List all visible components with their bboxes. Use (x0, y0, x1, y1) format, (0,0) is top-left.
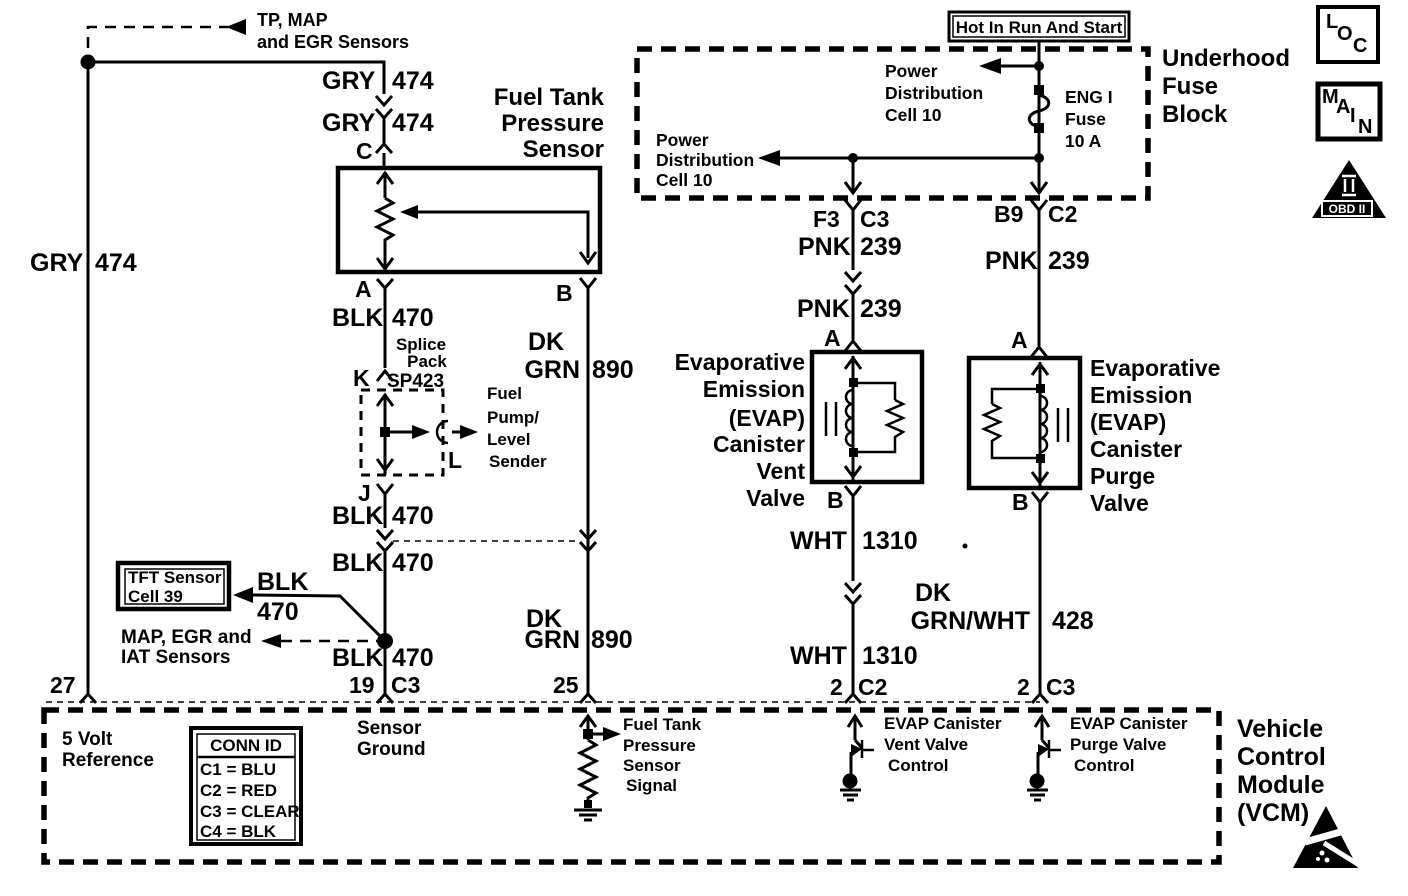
svg-text:Vehicle: Vehicle (1237, 715, 1323, 743)
svg-text:C2: C2 (1048, 201, 1077, 227)
svg-text:BLK: BLK (332, 549, 383, 577)
svg-text:PNK: PNK (798, 233, 851, 261)
svg-text:Level: Level (487, 430, 530, 449)
svg-text:Block: Block (1162, 101, 1228, 128)
svg-text:A: A (824, 325, 841, 351)
svg-text:470: 470 (257, 598, 299, 626)
svg-text:B9: B9 (994, 201, 1023, 227)
svg-text:Pressure: Pressure (501, 110, 604, 137)
svg-text:Distribution: Distribution (656, 150, 754, 170)
svg-text:Emission: Emission (1090, 382, 1192, 408)
svg-text:470: 470 (392, 502, 434, 530)
svg-text:OBD II: OBD II (1329, 202, 1366, 216)
svg-text:Pump/: Pump/ (487, 408, 539, 427)
svg-text:Underhood: Underhood (1162, 45, 1290, 72)
svg-text:C3: C3 (860, 206, 889, 232)
svg-text:ENG I: ENG I (1065, 87, 1113, 107)
svg-text:C2 = RED: C2 = RED (200, 781, 277, 800)
svg-text:I: I (1350, 105, 1356, 127)
svg-text:F3: F3 (813, 206, 840, 232)
svg-text:Valve: Valve (746, 485, 805, 511)
svg-text:Cell 10: Cell 10 (885, 105, 942, 125)
svg-text:Fuse: Fuse (1162, 73, 1218, 100)
svg-text:Cell 39: Cell 39 (128, 587, 183, 606)
svg-text:Control: Control (1074, 756, 1134, 775)
svg-text:Vent: Vent (756, 458, 805, 484)
svg-text:Control: Control (888, 756, 948, 775)
svg-text:Module: Module (1237, 771, 1325, 799)
svg-text:BLK: BLK (332, 304, 383, 332)
svg-text:Fuse: Fuse (1065, 109, 1106, 129)
svg-text:Evaporative: Evaporative (675, 349, 805, 375)
svg-text:TP, MAP: TP, MAP (257, 10, 328, 30)
svg-text:Sender: Sender (489, 452, 547, 471)
svg-text:5 Volt: 5 Volt (62, 729, 113, 750)
svg-text:Signal: Signal (626, 776, 677, 795)
svg-text:DK: DK (528, 328, 564, 356)
svg-text:25: 25 (553, 672, 579, 698)
svg-text:10 A: 10 A (1065, 131, 1102, 151)
svg-text:1310: 1310 (862, 527, 918, 555)
svg-text:MAP, EGR and: MAP, EGR and (121, 627, 252, 648)
svg-text:and EGR Sensors: and EGR Sensors (257, 32, 409, 52)
svg-text:L: L (448, 447, 462, 473)
svg-text:K: K (353, 365, 370, 391)
svg-text:WHT: WHT (790, 642, 847, 670)
svg-text:B: B (556, 280, 573, 306)
svg-text:428: 428 (1052, 607, 1094, 635)
svg-text:Pressure: Pressure (623, 736, 696, 755)
svg-text:Purge: Purge (1090, 463, 1155, 489)
svg-text:GRY: GRY (322, 109, 376, 137)
svg-text:(EVAP): (EVAP) (729, 405, 805, 431)
svg-text:WHT: WHT (790, 527, 847, 555)
svg-text:A: A (355, 276, 372, 302)
svg-text:Sensor: Sensor (523, 136, 604, 163)
svg-text:Fuel Tank: Fuel Tank (623, 715, 702, 734)
svg-text:C1 = BLU: C1 = BLU (200, 760, 276, 779)
svg-text:GRY: GRY (30, 249, 84, 277)
svg-text:CONN ID: CONN ID (210, 736, 282, 755)
svg-text:C: C (356, 138, 373, 164)
svg-text:890: 890 (592, 356, 634, 384)
svg-text:474: 474 (95, 249, 137, 277)
svg-text:A: A (1336, 96, 1350, 118)
svg-text:B: B (827, 487, 844, 513)
svg-text:A: A (1011, 327, 1028, 353)
svg-text:Sensor: Sensor (357, 718, 422, 739)
svg-text:Emission: Emission (703, 376, 805, 402)
svg-text:474: 474 (392, 109, 434, 137)
svg-text:(VCM): (VCM) (1237, 799, 1309, 827)
svg-text:BLK: BLK (332, 502, 383, 530)
svg-text:239: 239 (860, 233, 902, 261)
svg-text:Power: Power (656, 130, 709, 150)
svg-text:Ground: Ground (357, 739, 426, 760)
svg-text:(EVAP): (EVAP) (1090, 409, 1166, 435)
svg-text:PNK: PNK (985, 247, 1038, 275)
svg-text:BLK: BLK (257, 568, 308, 596)
svg-text:EVAP Canister: EVAP Canister (884, 714, 1002, 733)
svg-text:GRY: GRY (322, 67, 376, 95)
svg-text:GRN: GRN (524, 626, 580, 654)
svg-text:Purge Valve: Purge Valve (1070, 735, 1166, 754)
svg-text:TFT Sensor: TFT Sensor (128, 568, 222, 587)
svg-text:Fuel: Fuel (487, 384, 522, 403)
svg-text:C: C (1353, 35, 1367, 57)
svg-text:Vent Valve: Vent Valve (884, 735, 968, 754)
svg-text:IAT Sensors: IAT Sensors (121, 647, 230, 668)
svg-text:Evaporative: Evaporative (1090, 355, 1220, 381)
svg-text:239: 239 (860, 295, 902, 323)
svg-text:Reference: Reference (62, 750, 154, 771)
svg-text:890: 890 (591, 626, 633, 654)
svg-text:Canister: Canister (713, 431, 805, 457)
svg-text:470: 470 (392, 644, 434, 672)
svg-text:GRN/WHT: GRN/WHT (911, 607, 1030, 635)
svg-text:Cell 10: Cell 10 (656, 170, 713, 190)
svg-text:GRN: GRN (524, 356, 580, 384)
svg-text:470: 470 (392, 304, 434, 332)
svg-text:1310: 1310 (862, 642, 918, 670)
svg-text:EVAP Canister: EVAP Canister (1070, 714, 1188, 733)
svg-text:Valve: Valve (1090, 490, 1149, 516)
svg-text:Canister: Canister (1090, 436, 1182, 462)
svg-text:PNK: PNK (797, 295, 850, 323)
svg-text:N: N (1358, 116, 1372, 138)
svg-text:Fuel Tank: Fuel Tank (494, 84, 605, 111)
svg-text:C4 = BLK: C4 = BLK (200, 822, 277, 841)
svg-text:Control: Control (1237, 743, 1326, 771)
svg-text:27: 27 (50, 672, 76, 698)
svg-text:C2: C2 (858, 674, 887, 700)
svg-text:C3: C3 (391, 672, 420, 698)
svg-text:239: 239 (1048, 247, 1090, 275)
svg-text:C3 = CLEAR: C3 = CLEAR (200, 802, 300, 821)
svg-text:Sensor: Sensor (623, 756, 681, 775)
svg-text:2: 2 (830, 674, 843, 700)
svg-text:Distribution: Distribution (885, 83, 983, 103)
svg-text:Pack: Pack (407, 352, 447, 371)
svg-text:C3: C3 (1046, 674, 1075, 700)
svg-text:19: 19 (349, 672, 375, 698)
svg-text:B: B (1012, 489, 1029, 515)
svg-text:2: 2 (1017, 674, 1030, 700)
svg-text:Hot In Run And Start: Hot In Run And Start (956, 18, 1123, 37)
svg-text:O: O (1337, 23, 1353, 45)
svg-text:474: 474 (392, 67, 434, 95)
svg-text:470: 470 (392, 549, 434, 577)
svg-text:BLK: BLK (332, 644, 383, 672)
svg-text:Power: Power (885, 61, 938, 81)
svg-text:DK: DK (915, 579, 951, 607)
